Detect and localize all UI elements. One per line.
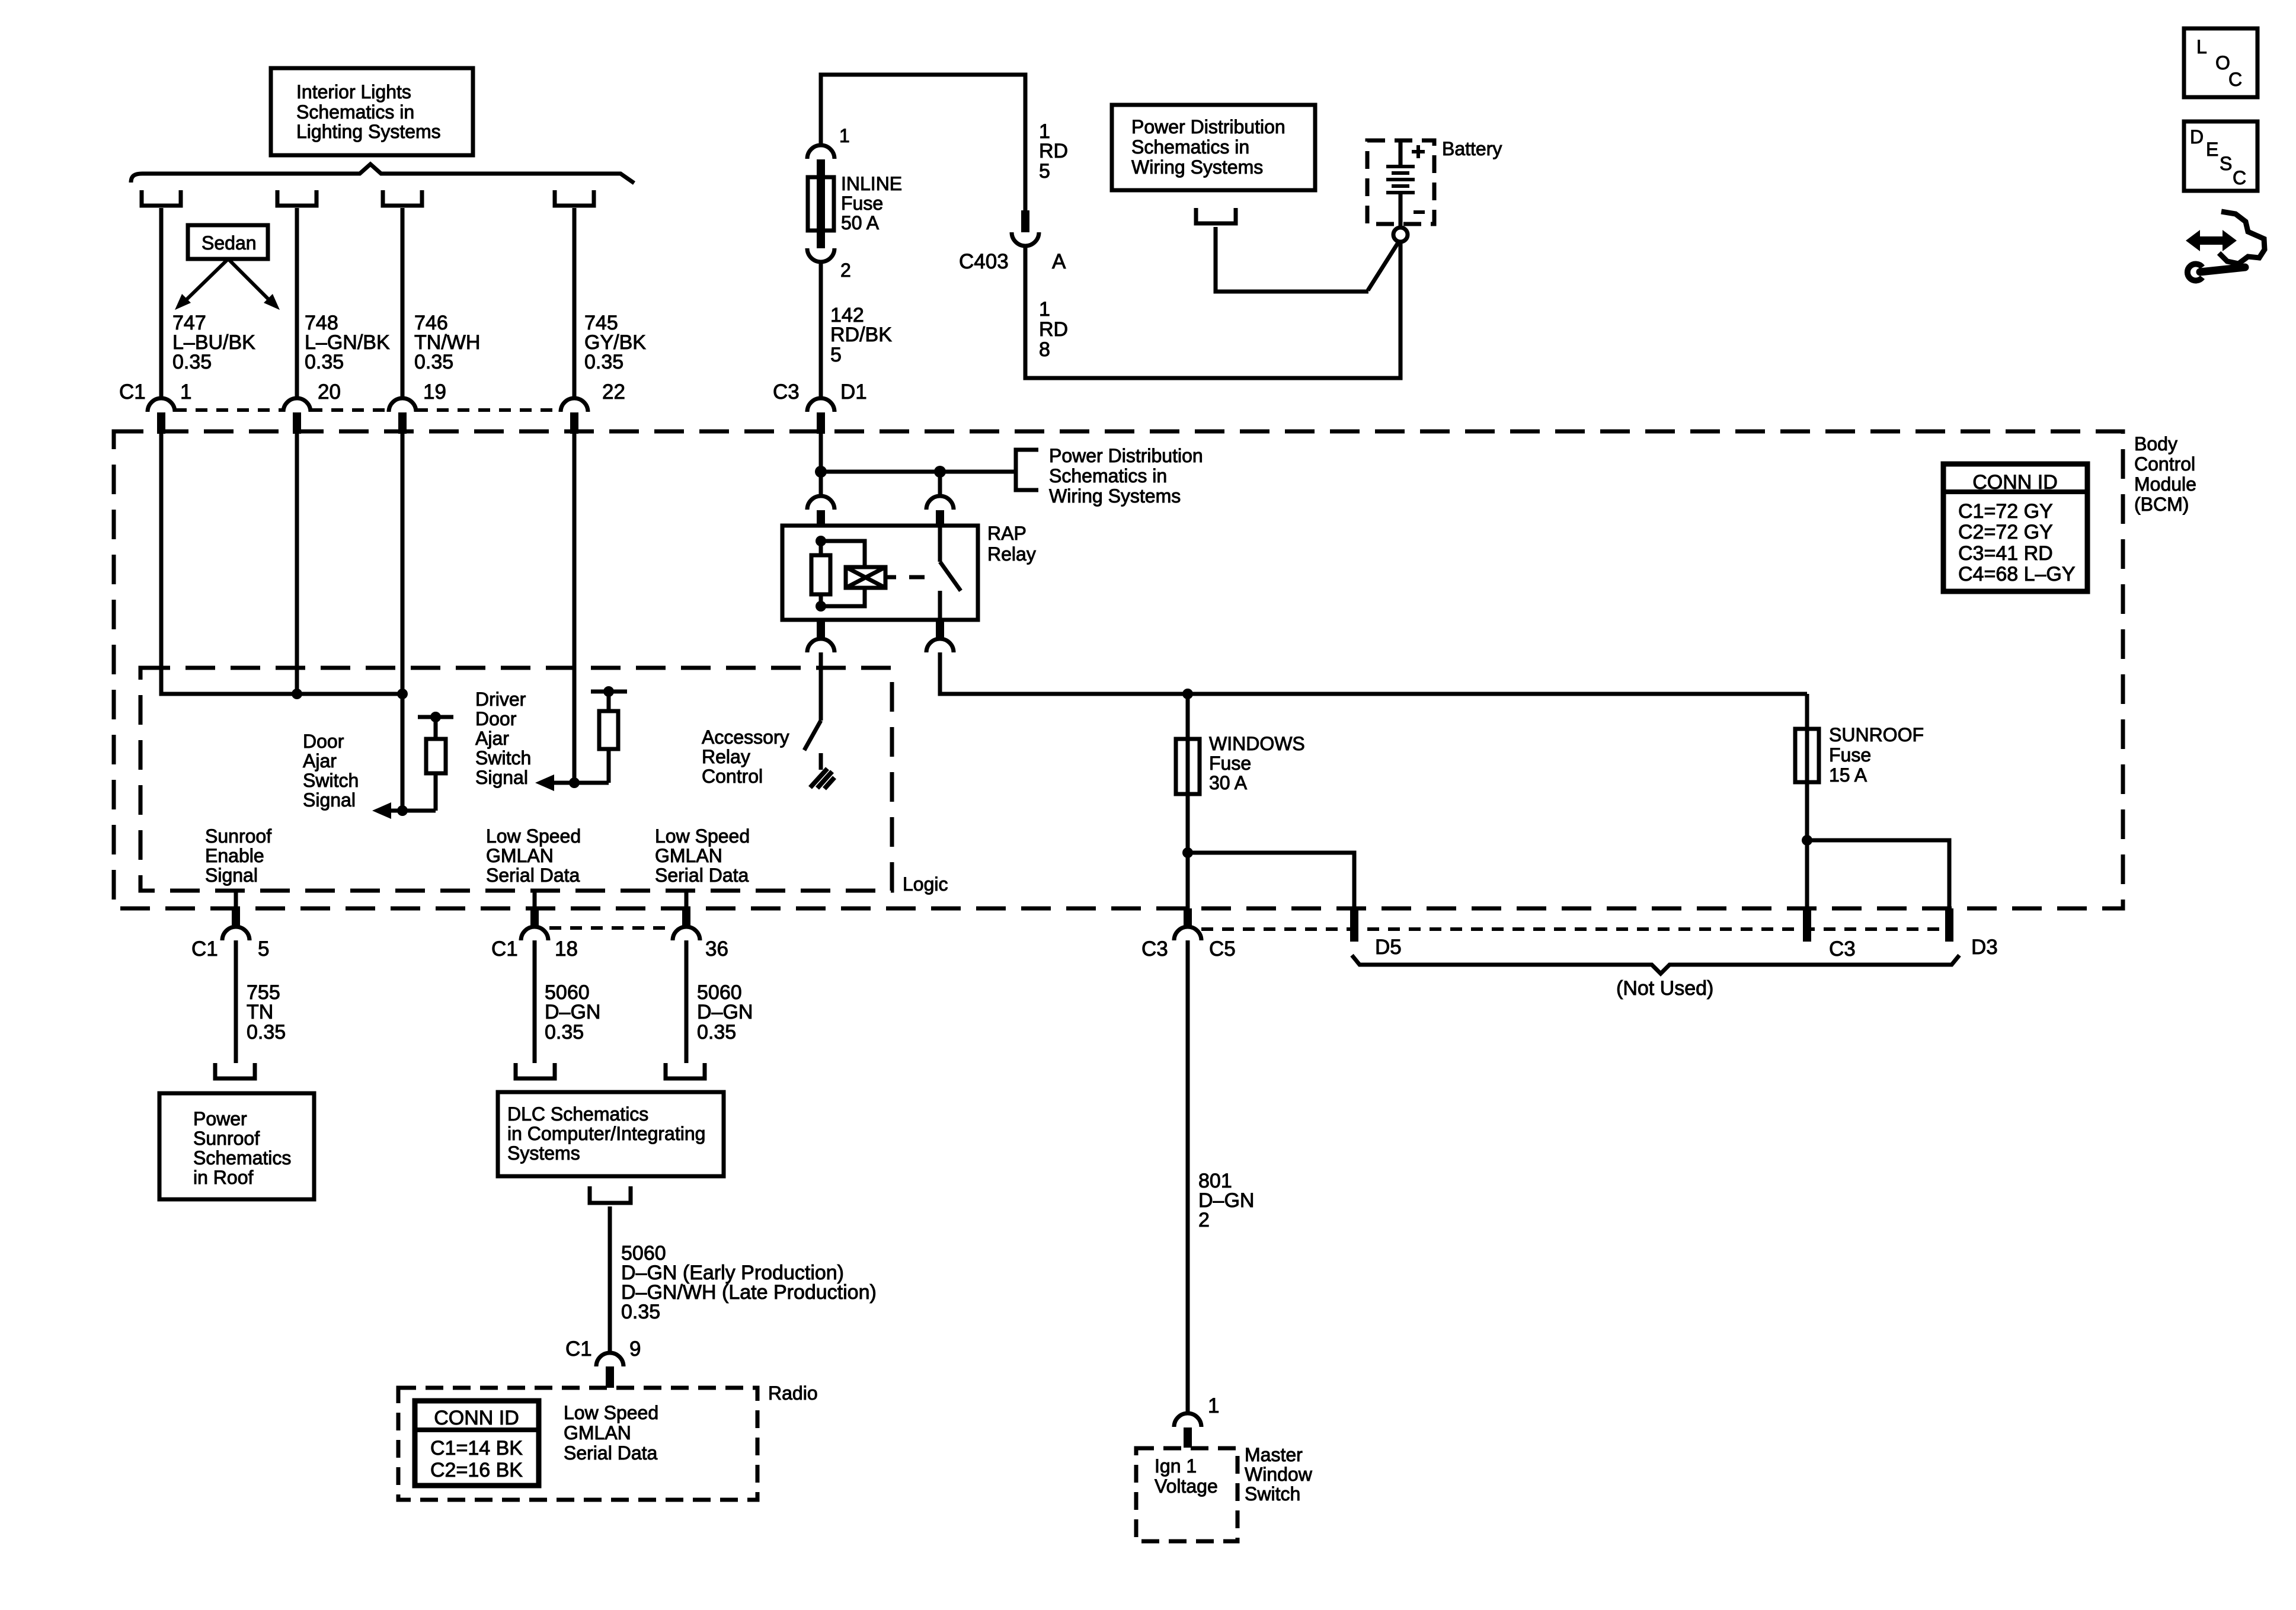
pin labels C3 C5 D5	[1141, 936, 1402, 961]
svg-text:0.35: 0.35	[584, 351, 623, 373]
svg-text:Ajar: Ajar	[475, 728, 509, 749]
terminal arc relay switch top	[926, 496, 954, 526]
relay switch contact	[940, 526, 961, 620]
battery B1 dashed box	[1367, 140, 1434, 224]
svg-text:Sunroof: Sunroof	[205, 825, 271, 847]
ground (chassis)	[810, 769, 834, 789]
relay K1 RAP Relay box	[782, 526, 978, 620]
pin C3-D1 (BCM)	[807, 398, 834, 434]
wire 748 from bracket 2	[295, 208, 299, 399]
node junction below windows fuse	[1182, 847, 1193, 858]
svg-text:Low Speed: Low Speed	[486, 825, 581, 847]
svg-text:Control: Control	[702, 766, 763, 787]
pin D5 (not used)	[1350, 908, 1358, 942]
svg-text:Schematics: Schematics	[193, 1147, 291, 1169]
svg-text:Door: Door	[475, 708, 517, 729]
svg-text:Voltage: Voltage	[1155, 1475, 1218, 1497]
svg-text:Schematics in: Schematics in	[1131, 136, 1249, 158]
pin label 1 (master window switch)	[1208, 1394, 1219, 1417]
wire windows fuse branch	[1186, 694, 1190, 853]
svg-text:Signal: Signal	[475, 767, 528, 788]
label wire 745 GY/BK 0.35	[584, 312, 646, 373]
label Power Distribution Schematics in Wiring Systems (inside BCM)	[1049, 445, 1203, 507]
wire 801 D-GN to master window switch	[1186, 940, 1190, 1413]
svg-text:Relay: Relay	[987, 543, 1036, 565]
svg-text:2: 2	[1198, 1209, 1210, 1231]
svg-text:C1: C1	[191, 937, 218, 961]
label 2 (inline fuse pin 2)	[840, 260, 851, 281]
Ign 1 Voltage dashed box	[1136, 1448, 1237, 1541]
svg-text:Switch: Switch	[303, 770, 359, 791]
driver door ajar signal arrow	[535, 774, 609, 791]
svg-text:GMLAN: GMLAN	[486, 845, 554, 866]
svg-text:Switch: Switch	[1245, 1483, 1300, 1505]
node junction wire2-rail	[292, 689, 302, 699]
connector bracket power distribution	[1196, 208, 1236, 223]
svg-text:Serial Data: Serial Data	[564, 1442, 658, 1464]
Sedan callout box	[188, 225, 268, 259]
node junction windows fuse feed	[1182, 689, 1193, 699]
node junction to power distribution ref	[815, 466, 827, 478]
label wire 746 TN/WH 0.35	[414, 312, 480, 373]
svg-text:C1: C1	[119, 380, 146, 404]
service icon double arrow	[2186, 230, 2237, 251]
svg-text:C3: C3	[1141, 937, 1168, 961]
svg-text:RAP: RAP	[987, 523, 1027, 544]
svg-text:Serial Data: Serial Data	[486, 865, 580, 886]
svg-text:C5: C5	[1209, 937, 1236, 961]
wire GMLAN to pin 36	[685, 891, 689, 908]
svg-text:Power: Power	[193, 1108, 247, 1129]
reference box: Power Distribution Schematics in Wiring Systems (top)	[1112, 105, 1315, 190]
label 5060 D-GN early/late production	[621, 1242, 877, 1323]
accessory relay control wire	[819, 652, 823, 721]
svg-text:19: 19	[423, 380, 446, 404]
svg-text:Schematics in: Schematics in	[1049, 465, 1167, 486]
pin labels C3 D1	[773, 380, 867, 404]
wire GMLAN to pin C1-18	[533, 891, 537, 908]
svg-text:5: 5	[830, 344, 842, 366]
wire 5060 D-GN (pin 36)	[685, 940, 689, 1063]
svg-text:D1: D1	[840, 380, 867, 404]
label Sunroof Enable Signal	[205, 825, 271, 886]
RAP relay switch feed wire	[938, 472, 942, 497]
svg-text:Body: Body	[2134, 433, 2177, 454]
wire 1 RD 8 to battery	[1025, 242, 1400, 378]
svg-text:C1: C1	[565, 1337, 592, 1361]
label Driver Door Ajar Switch Signal	[475, 689, 531, 788]
pin C1-22	[561, 398, 588, 434]
svg-text:0.35: 0.35	[414, 351, 453, 373]
relay actuator dashed link	[885, 575, 932, 580]
svg-text:0.35: 0.35	[305, 351, 344, 373]
CONN ID table (radio)	[415, 1401, 539, 1486]
terminal arc fuse pin 2	[807, 231, 834, 262]
connector C403 pin A	[1012, 210, 1039, 246]
svg-text:Sedan: Sedan	[202, 232, 257, 254]
svg-text:C3: C3	[1829, 937, 1856, 961]
wire 142 RD/BK down to BCM	[819, 262, 823, 399]
svg-text:Module: Module	[2134, 473, 2196, 495]
wire junction rail to reference bracket	[821, 470, 1016, 474]
svg-text:1: 1	[1208, 1394, 1219, 1417]
Sedan arrow left	[175, 259, 228, 310]
relay coil branch	[821, 541, 885, 606]
label Battery	[1442, 138, 1502, 159]
label 5060 D-GN 0.35 (right)	[697, 981, 753, 1044]
svg-text:5: 5	[258, 937, 269, 961]
svg-text:D–GN: D–GN	[545, 1001, 600, 1023]
pin C1-5	[222, 908, 250, 940]
brace under Interior Lights box	[131, 164, 634, 183]
resistor R2 (driver door ajar pull-up)	[591, 686, 627, 783]
pin C1-18	[521, 908, 548, 940]
svg-text:C2=16 BK: C2=16 BK	[430, 1459, 523, 1481]
wire from pin C1-19 down (door ajar switch signal)	[401, 434, 405, 811]
svg-text:15 A: 15 A	[1829, 764, 1868, 786]
svg-text:C2=72 GY: C2=72 GY	[1958, 521, 2053, 543]
svg-text:INLINE: INLINE	[841, 173, 902, 194]
svg-text:8: 8	[1039, 338, 1050, 361]
svg-text:50 A: 50 A	[841, 212, 880, 233]
svg-text:1: 1	[1039, 298, 1050, 321]
svg-text:SUNROOF: SUNROOF	[1829, 724, 1924, 745]
label Low Speed GMLAN Serial Data (radio)	[564, 1402, 658, 1464]
dotted connector line bottom right	[1201, 927, 1944, 931]
wire branch to pin D3	[1807, 840, 1949, 908]
svg-text:E: E	[2206, 139, 2218, 160]
label 755 TN 0.35	[247, 981, 286, 1044]
svg-text:RD/BK: RD/BK	[830, 324, 892, 346]
svg-text:WINDOWS: WINDOWS	[1209, 733, 1305, 754]
reference box: DLC Schematics in Computer/Integrating Systems	[498, 1092, 724, 1176]
svg-text:2: 2	[840, 260, 851, 281]
pin labels C1 18 36	[491, 937, 728, 961]
svg-text:Radio: Radio	[768, 1382, 818, 1404]
service icon wrench	[2188, 264, 2245, 281]
wire 746 from bracket 3	[401, 208, 405, 399]
svg-text:Fuse: Fuse	[1209, 753, 1251, 774]
svg-text:D–GN: D–GN	[697, 1001, 753, 1023]
label wire 748 L-GN/BK 0.35	[305, 312, 390, 373]
svg-text:Serial Data: Serial Data	[655, 865, 749, 886]
label 5060 D-GN 0.35 (left)	[545, 981, 600, 1044]
terminal arc fuse pin 1	[807, 145, 834, 178]
wire 755 TN	[234, 940, 238, 1063]
accessory relay control switch blade	[804, 721, 821, 750]
svg-text:1: 1	[839, 125, 850, 146]
wire sunroof fuse branch	[1805, 694, 1809, 840]
svg-text:Sunroof: Sunroof	[193, 1128, 260, 1149]
node junction below sunroof fuse	[1802, 835, 1812, 846]
svg-text:30 A: 30 A	[1209, 772, 1248, 793]
label Accessory Relay Control	[702, 726, 789, 787]
svg-text:GMLAN: GMLAN	[655, 845, 722, 866]
connector bracket 1 (interior lights feed 1)	[142, 190, 181, 206]
terminal arc relay switch bottom	[926, 620, 954, 652]
svg-text:Switch: Switch	[475, 747, 531, 769]
reference bracket power distribution (inside BCM)	[1016, 450, 1038, 490]
svg-text:Logic: Logic	[903, 873, 948, 895]
connector bracket 3	[383, 190, 422, 206]
svg-text:Wiring Systems: Wiring Systems	[1131, 156, 1263, 178]
label Low Speed GMLAN Serial Data (pin 36)	[655, 825, 750, 886]
svg-text:in Roof: in Roof	[193, 1167, 254, 1188]
svg-text:TN: TN	[247, 1001, 273, 1023]
svg-text:C1=14 BK: C1=14 BK	[430, 1437, 523, 1459]
svg-text:20: 20	[318, 380, 341, 404]
svg-text:S: S	[2220, 153, 2232, 174]
label Body Control Module (BCM)	[2134, 433, 2196, 515]
reference box: Interior Lights Schematics in Lighting Systems	[271, 68, 473, 155]
pin labels C1 1 20 19 22	[119, 380, 625, 404]
label 142 RD/BK 5	[830, 304, 892, 366]
wire to pin C3 (right)	[1805, 840, 1809, 908]
svg-text:Battery: Battery	[1442, 138, 1502, 159]
svg-text:0.35: 0.35	[545, 1021, 584, 1044]
svg-text:Wiring Systems: Wiring Systems	[1049, 485, 1181, 507]
svg-text:(BCM): (BCM)	[2134, 494, 2189, 515]
fuse F3 SUNROOF 15A	[1795, 724, 1924, 786]
label Logic	[903, 873, 948, 895]
svg-text:Enable: Enable	[205, 845, 264, 866]
brace (Not Used)	[1352, 955, 1959, 1000]
label Low Speed GMLAN Serial Data (pin 18)	[486, 825, 581, 886]
fuse F1 INLINE 50A	[808, 173, 902, 233]
svg-text:A: A	[1052, 250, 1066, 273]
battery switch blade	[1368, 242, 1399, 290]
svg-text:C1=72 GY: C1=72 GY	[1958, 500, 2053, 523]
svg-text:1: 1	[180, 380, 191, 404]
relay internal resistor	[811, 536, 830, 612]
svg-text:9: 9	[629, 1337, 641, 1361]
svg-text:Low Speed: Low Speed	[655, 825, 750, 847]
wire from blade to power distribution bracket	[1216, 227, 1368, 292]
connector bracket DLC right	[666, 1063, 705, 1078]
svg-text:C: C	[2228, 69, 2242, 90]
node junction wire3-rail	[397, 689, 408, 699]
label 1 RD 5	[1039, 120, 1068, 183]
connector bracket 4	[555, 190, 594, 206]
reference box: Power Sunroof Schematics in Roof	[159, 1093, 314, 1199]
svg-text:22: 22	[602, 380, 625, 404]
pin C1-19	[389, 398, 416, 434]
battery terminal circle node	[1393, 228, 1408, 242]
svg-text:C: C	[2233, 167, 2246, 188]
svg-text:5: 5	[1039, 160, 1050, 183]
label Radio	[768, 1382, 818, 1404]
pin D3 (not used)	[1945, 908, 1953, 942]
svg-text:C403: C403	[959, 250, 1009, 273]
svg-text:Accessory: Accessory	[702, 726, 789, 748]
battery cells	[1386, 140, 1415, 228]
pin C3 (right, not used)	[1803, 908, 1811, 942]
wire 745 from bracket 4	[573, 208, 577, 399]
wire 5060 to radio	[608, 1206, 612, 1353]
DESC legend box	[2184, 121, 2257, 191]
wire to pin C3/C5	[1186, 853, 1190, 908]
svg-text:Ajar: Ajar	[303, 750, 337, 772]
svg-text:C4=68 L–GY: C4=68 L–GY	[1958, 563, 2076, 585]
svg-text:Master: Master	[1245, 1444, 1303, 1465]
wire from pin C1-20 down	[295, 434, 299, 694]
service icon outline	[2219, 212, 2265, 264]
svg-text:RD: RD	[1039, 318, 1068, 341]
label RAP Relay	[987, 523, 1036, 565]
pin labels C1 5	[191, 937, 269, 961]
svg-text:Door: Door	[303, 731, 344, 752]
label 1 RD 8	[1039, 298, 1068, 361]
connector bracket below DLC box	[590, 1186, 631, 1203]
svg-text:Schematics in: Schematics in	[296, 101, 414, 123]
wire from pin C1-1 down and right (sunroof enable feed)	[161, 434, 401, 694]
door ajar signal arrow	[372, 802, 436, 819]
svg-text:Control: Control	[2134, 453, 2195, 475]
battery feed loop top wire	[821, 75, 1025, 210]
label wire 747 L-BU/BK 0.35	[172, 312, 255, 373]
pin labels C3 D3	[1829, 936, 1998, 961]
svg-text:C3=41 RD: C3=41 RD	[1958, 542, 2053, 565]
label Door Ajar Switch Signal	[303, 731, 359, 811]
svg-text:Power Distribution: Power Distribution	[1049, 445, 1203, 466]
pin labels C1 9	[565, 1337, 641, 1361]
LOC legend box	[2184, 28, 2257, 97]
ground stub	[819, 753, 823, 770]
terminal arc relay coil bottom	[807, 620, 834, 652]
svg-text:C3: C3	[773, 380, 800, 404]
svg-text:Low Speed: Low Speed	[564, 1402, 658, 1423]
node junction RAP switch feed	[934, 466, 946, 478]
battery polarity labels	[1412, 145, 1425, 212]
fuse F2 WINDOWS 30A	[1176, 733, 1305, 794]
svg-text:RD: RD	[1039, 140, 1068, 162]
label Master Window Switch	[1245, 1444, 1313, 1505]
label 1 (inline fuse pin 1)	[839, 125, 850, 146]
svg-text:Ign 1: Ign 1	[1155, 1455, 1197, 1477]
connector bracket 2	[277, 190, 316, 206]
svg-text:Signal: Signal	[205, 865, 258, 886]
connector bracket DLC left	[516, 1063, 555, 1078]
svg-text:0.35: 0.35	[172, 351, 212, 373]
svg-text:GMLAN: GMLAN	[564, 1422, 631, 1443]
connector bracket power sunroof	[215, 1063, 255, 1078]
wire 5060 D-GN (pin 18)	[533, 940, 537, 1063]
dotted connector line between pins 18 and 36	[549, 926, 671, 930]
svg-text:Driver: Driver	[475, 689, 526, 710]
svg-text:CONN ID: CONN ID	[1972, 471, 2058, 494]
Body Control Module outer dashed box	[114, 431, 2123, 908]
terminal arc relay coil top	[807, 496, 834, 526]
svg-text:(Not Used): (Not Used)	[1616, 977, 1713, 1000]
pin 1 master window switch	[1174, 1413, 1201, 1448]
svg-text:Systems: Systems	[507, 1142, 580, 1164]
svg-text:0.35: 0.35	[621, 1301, 660, 1323]
wire 747 from bracket 1	[159, 208, 164, 399]
svg-text:D5: D5	[1375, 936, 1402, 959]
label 801 D-GN 2	[1198, 1170, 1254, 1231]
svg-text:DLC Schematics: DLC Schematics	[507, 1103, 648, 1125]
wire D1 into BCM	[819, 434, 823, 472]
svg-text:36: 36	[705, 937, 728, 961]
svg-text:Window: Window	[1245, 1464, 1313, 1485]
wire branch to pin D5	[1188, 853, 1354, 908]
svg-text:Power Distribution: Power Distribution	[1131, 116, 1285, 137]
pin C1-9 radio	[596, 1353, 623, 1388]
pin 36	[673, 908, 700, 940]
labels C403 A	[959, 250, 1066, 273]
svg-text:0.35: 0.35	[697, 1021, 736, 1044]
svg-text:C1: C1	[491, 937, 518, 961]
connector C1 dotted line (top of BCM)	[175, 408, 561, 412]
Radio dashed box	[398, 1388, 757, 1500]
svg-text:in Computer/Integrating: in Computer/Integrating	[507, 1123, 705, 1144]
svg-text:Signal: Signal	[303, 789, 356, 811]
pin C3/C5	[1174, 908, 1201, 940]
Sedan arrow right	[228, 259, 280, 310]
svg-text:Fuse: Fuse	[1829, 744, 1871, 766]
svg-text:Lighting Systems: Lighting Systems	[296, 121, 441, 142]
svg-text:CONN ID: CONN ID	[434, 1407, 519, 1429]
svg-text:Interior Lights: Interior Lights	[296, 81, 411, 103]
pin C1-1	[148, 398, 175, 434]
Logic inner dashed box	[140, 668, 892, 891]
CONN ID table (BCM)	[1943, 464, 2087, 591]
wire from pin C1-22 down (driver door ajar switch signal)	[573, 434, 577, 783]
svg-text:Fuse: Fuse	[841, 193, 883, 214]
pin C1-20	[283, 398, 311, 434]
resistor R1 (door ajar pull-up)	[418, 712, 453, 811]
svg-text:0.35: 0.35	[247, 1021, 286, 1044]
RAP relay coil feed wire	[819, 472, 823, 497]
svg-text:Relay: Relay	[702, 746, 750, 767]
svg-text:18: 18	[555, 937, 578, 961]
svg-text:D: D	[2190, 126, 2204, 148]
main power rail from RAP relay	[940, 652, 1807, 694]
wire sunroof enable to pin C1-5	[234, 891, 238, 908]
svg-text:D3: D3	[1971, 936, 1998, 959]
svg-text:L: L	[2196, 36, 2207, 57]
